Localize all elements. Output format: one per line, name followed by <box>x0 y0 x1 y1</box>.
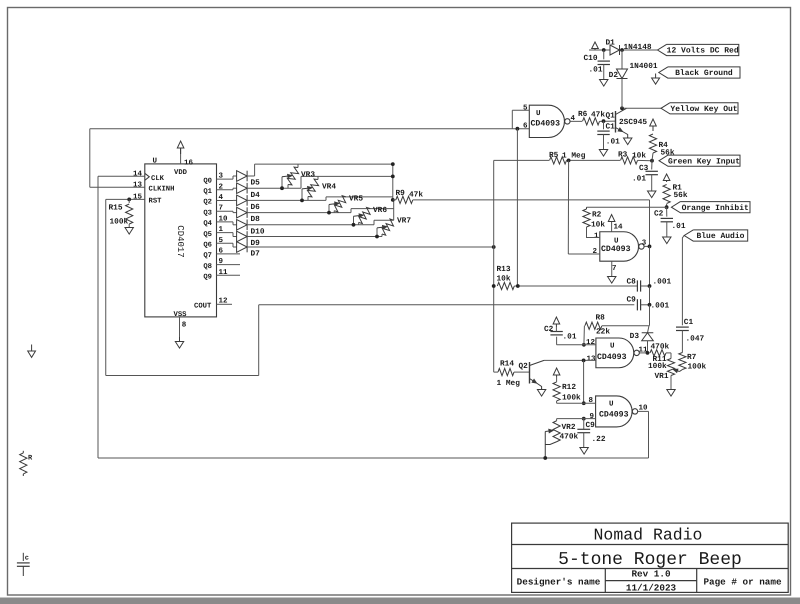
svg-text:Q0: Q0 <box>203 177 212 185</box>
svg-text:C8: C8 <box>627 278 637 287</box>
svg-text:R13: R13 <box>497 265 511 274</box>
svg-text:Green Key Input: Green Key Input <box>668 157 740 166</box>
svg-text:CD4093: CD4093 <box>531 120 561 129</box>
svg-text:Q7: Q7 <box>203 252 212 260</box>
svg-text:R15: R15 <box>109 204 123 213</box>
svg-text:C2: C2 <box>654 210 664 219</box>
svg-text:.01: .01 <box>589 66 603 75</box>
svg-text:.01: .01 <box>606 138 620 147</box>
svg-text:9: 9 <box>589 412 594 421</box>
svg-text:Q3: Q3 <box>203 209 212 217</box>
svg-text:U: U <box>610 343 615 351</box>
svg-text:1 Meg: 1 Meg <box>562 152 586 161</box>
svg-text:D3: D3 <box>630 332 640 341</box>
svg-text:14: 14 <box>614 224 624 232</box>
svg-text:U: U <box>609 401 614 409</box>
svg-text:Q6: Q6 <box>203 242 212 250</box>
svg-text:6: 6 <box>523 122 528 131</box>
svg-text:CLK: CLK <box>151 175 165 183</box>
svg-text:56k: 56k <box>674 191 688 200</box>
svg-text:C1: C1 <box>684 318 694 327</box>
svg-text:R2: R2 <box>592 211 602 220</box>
svg-text:Yellow Key Out: Yellow Key Out <box>670 105 737 114</box>
svg-text:47k: 47k <box>591 111 605 120</box>
svg-text:Q4: Q4 <box>203 220 212 228</box>
svg-text:16: 16 <box>184 158 194 167</box>
svg-text:VR3: VR3 <box>301 171 315 180</box>
svg-text:Nomad Radio: Nomad Radio <box>594 526 703 545</box>
svg-text:15: 15 <box>133 194 143 202</box>
svg-text:47k: 47k <box>409 191 423 200</box>
svg-text:COUT: COUT <box>194 302 212 310</box>
svg-text:VR6: VR6 <box>373 206 387 215</box>
svg-text:56k: 56k <box>661 149 675 158</box>
svg-text:RST: RST <box>149 198 163 206</box>
svg-text:CD4093: CD4093 <box>601 245 631 254</box>
svg-text:13: 13 <box>133 181 143 190</box>
svg-text:D8: D8 <box>251 215 261 224</box>
svg-text:100k: 100k <box>110 218 129 227</box>
svg-text:10k: 10k <box>591 220 605 229</box>
svg-text:.047: .047 <box>686 335 705 344</box>
svg-text:D6: D6 <box>251 203 261 212</box>
svg-text:Q9: Q9 <box>203 274 212 282</box>
svg-text:VSS: VSS <box>174 311 188 319</box>
svg-text:14: 14 <box>133 171 143 179</box>
svg-text:100k: 100k <box>688 363 707 372</box>
svg-text:Black Ground: Black Ground <box>675 69 733 78</box>
svg-text:Q5: Q5 <box>203 231 212 239</box>
svg-text:12 Volts DC Red: 12 Volts DC Red <box>667 47 739 56</box>
svg-text:100k: 100k <box>648 362 667 371</box>
svg-text:c: c <box>25 555 29 563</box>
svg-text:D2: D2 <box>609 71 619 80</box>
svg-text:1: 1 <box>594 233 599 241</box>
svg-text:D7: D7 <box>251 250 261 259</box>
svg-text:Page # or name: Page # or name <box>703 577 782 588</box>
svg-text:C1: C1 <box>606 123 616 132</box>
svg-text:Q2: Q2 <box>519 362 529 371</box>
svg-text:Rev 1.0: Rev 1.0 <box>631 569 670 580</box>
svg-text:U: U <box>153 157 158 165</box>
svg-text:VR4: VR4 <box>322 182 336 191</box>
svg-text:2SC945: 2SC945 <box>619 118 647 127</box>
svg-text:CD4017: CD4017 <box>175 225 185 257</box>
svg-text:CD4093: CD4093 <box>597 353 627 362</box>
svg-text:Q2: Q2 <box>203 199 212 207</box>
svg-text:Q1: Q1 <box>203 188 212 196</box>
svg-text:Designer's name: Designer's name <box>517 577 601 588</box>
svg-text:470k: 470k <box>560 433 579 442</box>
svg-text:5-tone Roger Beep: 5-tone Roger Beep <box>558 550 742 570</box>
svg-text:C3: C3 <box>639 164 649 173</box>
svg-text:VR1: VR1 <box>655 372 669 381</box>
svg-text:.01: .01 <box>632 175 646 184</box>
svg-text:C2: C2 <box>544 325 554 334</box>
svg-text:C10: C10 <box>584 54 598 63</box>
svg-text:470k: 470k <box>651 343 670 352</box>
svg-text:.22: .22 <box>592 435 606 444</box>
svg-text:5: 5 <box>523 104 528 112</box>
svg-text:VDD: VDD <box>174 169 188 177</box>
svg-text:CLKINH: CLKINH <box>149 186 175 194</box>
svg-text:D1: D1 <box>606 39 616 48</box>
svg-text:.001: .001 <box>651 302 670 311</box>
svg-text:R6: R6 <box>578 110 588 119</box>
svg-text:1N4001: 1N4001 <box>630 62 658 71</box>
svg-text:13: 13 <box>586 355 596 364</box>
svg-text:VR7: VR7 <box>397 217 411 226</box>
svg-text:C9: C9 <box>627 296 637 305</box>
svg-text:D5: D5 <box>251 179 261 188</box>
svg-text:22k: 22k <box>596 328 610 337</box>
svg-text:.01: .01 <box>563 333 577 342</box>
svg-text:11/1/2023: 11/1/2023 <box>626 582 677 593</box>
svg-text:7: 7 <box>612 265 617 273</box>
svg-text:VR2: VR2 <box>562 423 576 432</box>
svg-text:D10: D10 <box>251 227 265 236</box>
svg-text:8: 8 <box>182 320 187 329</box>
svg-text:U: U <box>536 110 541 118</box>
svg-text:R8: R8 <box>596 314 606 323</box>
svg-text:Q1: Q1 <box>606 112 616 121</box>
svg-text:R7: R7 <box>687 353 697 362</box>
svg-text:1 Meg: 1 Meg <box>497 379 521 388</box>
svg-text:Q8: Q8 <box>203 263 212 271</box>
svg-text:C9: C9 <box>586 421 596 430</box>
svg-text:Blue Audio: Blue Audio <box>696 232 744 241</box>
svg-text:1N4148: 1N4148 <box>624 43 652 52</box>
svg-text:12: 12 <box>586 338 596 347</box>
svg-text:100k: 100k <box>562 394 581 403</box>
svg-text:R14: R14 <box>500 360 514 369</box>
svg-text:VR5: VR5 <box>349 194 363 203</box>
svg-text:Orange Inhibit: Orange Inhibit <box>682 204 749 213</box>
svg-text:R12: R12 <box>562 383 576 392</box>
svg-text:D4: D4 <box>251 191 261 200</box>
svg-text:.01: .01 <box>672 222 686 231</box>
svg-text:CD4093: CD4093 <box>599 411 629 420</box>
svg-text:.001: .001 <box>653 278 672 287</box>
